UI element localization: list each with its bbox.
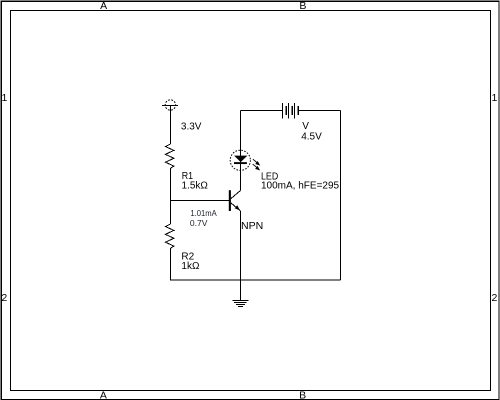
svg-text:NPN: NPN <box>241 221 263 232</box>
svg-text:B: B <box>299 390 306 400</box>
svg-text:A: A <box>100 0 107 12</box>
svg-text:1kΩ: 1kΩ <box>181 261 200 272</box>
svg-text:1: 1 <box>1 92 7 104</box>
svg-text:0.7V: 0.7V <box>190 218 208 228</box>
svg-text:A: A <box>100 390 107 400</box>
svg-text:1: 1 <box>491 92 497 104</box>
svg-text:3.3V: 3.3V <box>181 122 202 133</box>
svg-text:2: 2 <box>1 292 7 304</box>
svg-text:B: B <box>299 0 306 12</box>
svg-text:2: 2 <box>491 292 497 304</box>
svg-text:1.5kΩ: 1.5kΩ <box>182 181 209 192</box>
svg-text:1.01mA: 1.01mA <box>190 208 217 218</box>
svg-text:4.5V: 4.5V <box>301 131 322 142</box>
svg-text:100mA, hFE=295: 100mA, hFE=295 <box>261 181 340 192</box>
